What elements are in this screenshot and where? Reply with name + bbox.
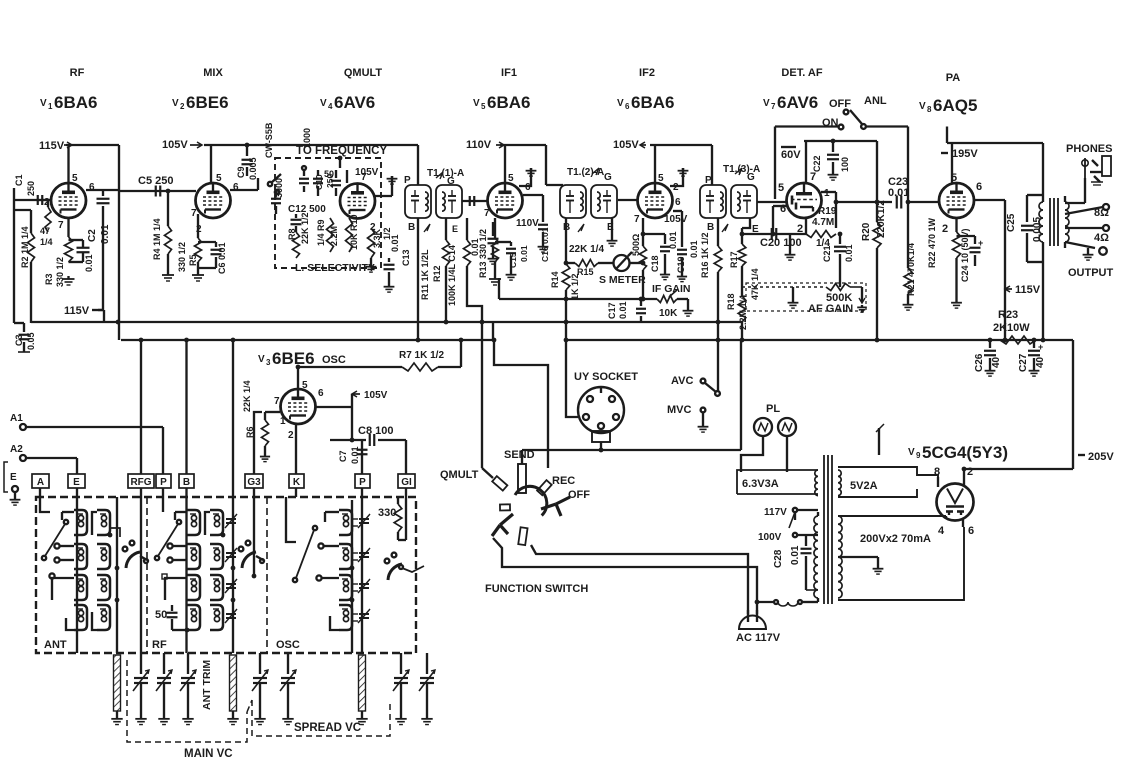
svg-text:AC 117V: AC 117V [736, 632, 781, 644]
svg-text:R16 1K 1/2: R16 1K 1/2 [700, 232, 710, 278]
variable capacitor C rf trim [280, 653, 296, 725]
ground C16 [538, 244, 549, 252]
capacitor 1000 [299, 128, 312, 192]
pin 5 V8 [951, 172, 957, 184]
capacitor C21 0.01 [822, 232, 854, 287]
svg-text:UY SOCKET: UY SOCKET [574, 371, 638, 383]
svg-text:6BE6: 6BE6 [272, 349, 315, 368]
meter S METER [598, 252, 646, 286]
pin P T1(1) [404, 175, 411, 186]
wire V8 plate top [947, 143, 1043, 184]
potentiometer IF GAIN 10K [499, 278, 688, 319]
svg-text:2: 2 [288, 430, 294, 441]
resistor R6 22K 1/4 [242, 380, 280, 454]
svg-text:5CG4(5Y3): 5CG4(5Y3) [922, 443, 1008, 462]
ground MVC [698, 424, 709, 432]
label ANT section [44, 639, 67, 651]
wire V3 cathode down [295, 425, 297, 474]
pin 2 V3 [288, 430, 294, 441]
svg-text:330 1/2: 330 1/2 [55, 257, 65, 287]
svg-text:6: 6 [625, 102, 630, 111]
svg-text:G: G [604, 172, 612, 183]
svg-text:115V: 115V [64, 305, 90, 317]
svg-text:6: 6 [675, 197, 681, 208]
svg-text:7: 7 [634, 214, 640, 225]
wire B+ bus right y340 [564, 338, 1073, 343]
svg-text:6: 6 [976, 181, 982, 193]
pin 7 V3 [274, 396, 280, 407]
svg-text:V: V [908, 447, 915, 458]
terminal box G3 [245, 474, 263, 488]
svg-text:GI: GI [401, 477, 412, 488]
rectifier winding 5V2A [838, 467, 938, 497]
tube V8 6AQ5 [939, 183, 974, 218]
svg-text:6BA6: 6BA6 [54, 93, 97, 112]
capacitor C26 40 [974, 340, 1002, 376]
wire V9 pin4 [945, 516, 947, 518]
svg-text:C20 100: C20 100 [760, 237, 802, 249]
terminal box P1 [156, 474, 171, 488]
dashed box coil assembly [36, 497, 416, 653]
tube V6 6BA6 [638, 183, 673, 218]
fuse [755, 600, 802, 606]
ground V1 cathode [63, 276, 75, 285]
capacitor C28 0.01 [773, 535, 818, 590]
pin 6 V2 [233, 182, 239, 193]
svg-text:0.01: 0.01 [470, 238, 480, 256]
pin 7 V6 [634, 214, 640, 225]
capacitor C12 500 [288, 204, 326, 232]
wire GI up [405, 440, 407, 474]
svg-text:R2 1M 1/4: R2 1M 1/4 [20, 226, 30, 268]
svg-text:C2: C2 [87, 229, 98, 242]
svg-text:6AV6: 6AV6 [334, 93, 375, 112]
wire G3 down inside [252, 488, 257, 578]
pin 2 V6 [673, 182, 679, 193]
svg-text:B: B [183, 477, 190, 488]
label 115V screen rail [64, 305, 103, 317]
pin 2 V9 [967, 466, 973, 478]
ground output [1083, 248, 1094, 260]
label MAIN VC [184, 748, 233, 760]
svg-text:MVC: MVC [667, 404, 692, 416]
svg-text:0.01: 0.01 [519, 245, 529, 262]
svg-text:6: 6 [89, 182, 95, 193]
IF transformer T1(3)-A [700, 185, 757, 218]
coil bank RF [187, 510, 237, 630]
pin P T1(3) [705, 175, 712, 186]
resistor R17 47K 1/4 [729, 228, 760, 300]
socket UY SOCKET [574, 371, 638, 442]
ground V7 cathode [785, 234, 796, 260]
svg-text:IF GAIN: IF GAIN [652, 283, 691, 295]
label SPREAD VC [294, 722, 361, 734]
svg-text:IF2: IF2 [639, 67, 655, 79]
ground C13 [384, 284, 395, 292]
resistor R5 330 1/2 [177, 238, 202, 272]
switch blade REC [537, 475, 575, 495]
tuning shaft RF [227, 655, 238, 725]
capacitor C25 0.005 [1006, 195, 1043, 262]
label 60V [781, 147, 801, 161]
svg-text:V: V [172, 98, 179, 109]
pin 7 V1 [58, 220, 64, 231]
tube name V5 6BA6 [473, 93, 530, 112]
label 195V [941, 127, 978, 161]
svg-text:R17: R17 [729, 251, 739, 268]
wire UY socket left [566, 340, 578, 417]
pin 5 V7 [778, 182, 784, 194]
wire V5 top right grounded [519, 168, 536, 186]
capacitor C7 0.01 label [338, 446, 360, 464]
svg-text:40: 40 [991, 356, 1002, 368]
svg-text:0.01: 0.01 [390, 234, 400, 252]
pin E T1(3) [752, 224, 759, 235]
ground E [10, 497, 21, 505]
svg-text:2: 2 [673, 182, 679, 193]
wire V6 top right grounded [670, 168, 688, 186]
resistor R12 100K 1/4L [447, 218, 482, 322]
wire V1 plate top [66, 145, 119, 183]
wire 115V feed corner [98, 310, 104, 322]
svg-text:IF1: IF1 [501, 67, 517, 79]
variable capacitor C ant trim [156, 653, 172, 725]
capacitor C23 0.01 [836, 176, 939, 209]
svg-text:2: 2 [180, 102, 185, 111]
terminal box E [68, 474, 85, 488]
pin 7 V5 [484, 208, 490, 219]
HV center tap [838, 557, 878, 566]
wire secondary taps [1065, 178, 1103, 248]
svg-text:47K 1/4: 47K 1/4 [750, 268, 760, 300]
ground R22 [951, 300, 962, 308]
wire ANL to V8 grid [866, 127, 908, 203]
terminal 8 ohm [1094, 204, 1109, 219]
terminal box K [289, 474, 304, 488]
switch arm SW fork [492, 514, 513, 536]
wire QMULT blade [440, 322, 493, 481]
wire V3 plate top [296, 365, 380, 389]
pin 6 V8 [976, 181, 982, 193]
resistor R11 1K 1/2L [420, 218, 450, 322]
capacitor C4 0.01 [69, 240, 95, 272]
svg-text:C6 0.01: C6 0.01 [217, 242, 227, 274]
svg-text:50: 50 [155, 609, 167, 621]
pin G T1(1) [436, 172, 455, 187]
pin G T1(2) [592, 168, 612, 183]
svg-text:A2: A2 [10, 444, 23, 455]
variable capacitor C main VC ant [133, 653, 149, 725]
wire ANT coils common [116, 497, 118, 653]
pin 2 V1 [44, 197, 50, 208]
svg-text:R5: R5 [188, 254, 198, 266]
svg-text:R7 1K 1/2: R7 1K 1/2 [399, 350, 444, 361]
capacitor C18 0.01 [643, 231, 678, 279]
svg-text:R18: R18 [726, 293, 736, 310]
wire RF shaft to bus [232, 340, 234, 497]
wire V5 cathode [494, 218, 496, 238]
pin G T1(3) [735, 168, 755, 183]
svg-text:RFG: RFG [130, 477, 151, 488]
svg-text:+: + [978, 238, 983, 248]
capacitor C27 40 [1018, 340, 1046, 376]
svg-text:L. SELECTIVITY: L. SELECTIVITY [295, 262, 375, 274]
pin 2 V8 [942, 223, 948, 235]
dashed box SPREAD VC [252, 700, 390, 736]
capacitor C13 0.01 [384, 234, 412, 284]
ground C14 [488, 256, 499, 264]
resistor 3.3K 1/2 [368, 227, 393, 264]
wire V1 cathode [67, 218, 69, 237]
svg-text:FUNCTION SWITCH: FUNCTION SWITCH [485, 583, 588, 595]
capacitor C2 0.01 [87, 190, 111, 310]
pin 7 V4 [361, 172, 367, 183]
svg-text:7: 7 [274, 396, 280, 407]
wire ON to V7 [775, 127, 839, 200]
svg-text:R23: R23 [998, 309, 1018, 321]
pin B T1(3) [707, 222, 728, 233]
label 500K AF GAIN [808, 292, 853, 315]
ground QMULT cathode [366, 264, 377, 272]
svg-text:200Vx2 70mA: 200Vx2 70mA [860, 533, 931, 545]
terminal box A [32, 474, 49, 488]
pin 6 V9 [968, 525, 974, 537]
svg-text:+: + [1038, 342, 1043, 352]
svg-text:1: 1 [280, 416, 286, 427]
resistor R3 330 1/2 [44, 237, 73, 287]
svg-text:0.01: 0.01 [689, 240, 699, 258]
switch arm OFF fork [541, 489, 590, 516]
wire G3 up [254, 412, 262, 474]
svg-text:4: 4 [938, 525, 945, 537]
resistor R12 [432, 265, 442, 282]
label L. SELECTIVITY [295, 262, 375, 274]
svg-text:C21: C21 [822, 245, 832, 262]
capacitor 50 RF [155, 605, 189, 632]
potentiometer AF GAIN 500K [742, 284, 865, 304]
resistor R13 330 1/2 [478, 229, 499, 278]
svg-text:60V: 60V [781, 149, 801, 161]
svg-text:R20: R20 [861, 222, 872, 241]
wire REC blade [492, 338, 548, 468]
pin 1 V7 [824, 188, 830, 199]
svg-text:OFF: OFF [568, 489, 590, 501]
svg-text:5: 5 [778, 182, 784, 194]
svg-text:6: 6 [780, 203, 786, 215]
capacitor C22 100 [812, 139, 850, 181]
svg-text:6.3V3A: 6.3V3A [742, 478, 779, 490]
resistor R20 220K 1/2 [861, 141, 887, 340]
capacitor C19 0.01 [673, 211, 699, 282]
plug AC117V [736, 610, 781, 644]
pin 6 V6 [675, 197, 681, 208]
label 110V screen V5 [516, 218, 539, 229]
label OUTPUT [1068, 267, 1114, 279]
label 205V [1078, 451, 1114, 463]
variable capacitor C osc trim [419, 653, 435, 725]
pin 5 V2 [216, 173, 222, 184]
svg-text:105V: 105V [364, 390, 388, 401]
svg-text:ANL: ANL [864, 95, 887, 107]
wire T1(3) secondary to V7 [757, 201, 787, 203]
svg-text:C25: C25 [1006, 213, 1017, 232]
capacitor C20 100 [742, 228, 806, 249]
svg-text:6: 6 [233, 182, 239, 193]
dashed box AF GAIN [746, 283, 866, 311]
switch MVC [667, 404, 705, 424]
terminal box P2 [355, 474, 370, 488]
svg-text:R22 470 1W: R22 470 1W [927, 217, 937, 268]
svg-text:110V: 110V [516, 218, 539, 229]
switch blade south [518, 527, 527, 545]
dashed divider ANT/RF [146, 497, 148, 653]
switch AVC [671, 340, 720, 396]
pin 8 V9 [934, 466, 940, 478]
resistor R22 470 1W [927, 217, 961, 300]
wire GI down inside [398, 488, 406, 540]
variable capacitor C ant trim 2 [180, 653, 196, 725]
svg-text:1/4 R9: 1/4 R9 [316, 219, 326, 246]
resistor R7 1K 1/2 [380, 340, 461, 371]
capacitor C1 250 [14, 174, 42, 205]
svg-text:V: V [617, 98, 624, 109]
pin 6 V3 [318, 388, 324, 399]
svg-text:110V: 110V [466, 139, 492, 151]
svg-text:2: 2 [942, 223, 948, 235]
pin 1 V3 [280, 416, 286, 427]
svg-text:V: V [320, 98, 327, 109]
resistor R18 2.2M 1/4 [726, 293, 748, 340]
wire V7 pin6 avc [771, 206, 787, 236]
label FUNCTION SWITCH [485, 583, 588, 595]
svg-text:C17: C17 [607, 302, 617, 319]
tube name V9 5CG4 [908, 443, 1008, 462]
wire V7 pin1 right [821, 192, 838, 228]
svg-text:8Ω: 8Ω [1094, 207, 1109, 219]
wire V9 pin8 [937, 477, 939, 487]
wire V7 plate top [804, 141, 877, 183]
svg-text:V: V [473, 98, 480, 109]
wire B+ bus left y340 [121, 322, 493, 342]
svg-text:DET. AF: DET. AF [781, 67, 822, 79]
svg-text:250: 250 [26, 181, 36, 196]
svg-text:C28: C28 [773, 549, 784, 568]
svg-text:10K: 10K [659, 308, 678, 319]
wire V2 plate to T1(1) [417, 145, 419, 185]
switch contact west [500, 504, 510, 510]
svg-text:22K 1/4: 22K 1/4 [242, 380, 252, 412]
capacitor C17 0.01 [607, 299, 646, 322]
dashed box selectivity [275, 158, 381, 268]
svg-text:SPREAD VC: SPREAD VC [294, 722, 361, 734]
pin 5 V3 [302, 380, 308, 391]
svg-text:E: E [10, 472, 17, 483]
svg-text:A1: A1 [10, 413, 23, 424]
tube V5 6BA6 [488, 183, 523, 218]
wire PL to heater winding [741, 436, 787, 472]
wire V4 plate top [338, 156, 343, 168]
tube V2 6BE6 [196, 183, 231, 218]
svg-text:C13: C13 [401, 249, 411, 266]
label MIX stage [203, 67, 223, 79]
svg-text:PHONES: PHONES [1066, 143, 1112, 155]
label 115V plate supply V1 [39, 140, 72, 152]
svg-text:1/4: 1/4 [40, 237, 53, 247]
svg-text:QMULT: QMULT [440, 469, 479, 481]
IF transformer T1(2)-A [560, 185, 617, 218]
svg-text:0.01: 0.01 [790, 545, 801, 565]
wires ANT coil taps [49, 512, 119, 630]
svg-text:C7: C7 [338, 450, 348, 462]
wire P2 up [357, 440, 368, 474]
wire function switch to transformer 2 [493, 538, 757, 614]
tube V9 5CG4 [937, 484, 974, 521]
svg-text:C9: C9 [236, 166, 246, 178]
svg-text:5V2A: 5V2A [850, 480, 878, 492]
output transformer core [1050, 198, 1058, 246]
capacitor C6 0.01 [198, 242, 227, 274]
tube name V1 6BA6 [40, 93, 97, 112]
tuning shaft ANT [111, 655, 122, 725]
terminal 0 [1099, 247, 1107, 255]
dashed divider RF/OSC [266, 497, 268, 653]
resistor R1 47 1/4 [40, 200, 53, 247]
svg-text:R4 1M 1/4: R4 1M 1/4 [152, 218, 162, 260]
svg-text:205V: 205V [1088, 451, 1114, 463]
svg-text:9: 9 [916, 451, 921, 460]
svg-text:T1.(1)-A: T1.(1)-A [427, 168, 464, 179]
svg-text:8: 8 [934, 466, 940, 478]
wire V2 plate top [204, 145, 418, 183]
svg-text:SEND: SEND [504, 449, 535, 461]
pin B T1(1) [408, 222, 430, 233]
svg-text:B: B [707, 222, 714, 233]
tuning shaft OSC [356, 655, 367, 725]
svg-text:7: 7 [191, 208, 197, 219]
svg-text:22K 1/2: 22K 1/2 [300, 212, 310, 244]
wire V1 grid left [36, 199, 51, 201]
wire T1(1) B down [417, 218, 419, 339]
svg-text:115V: 115V [1015, 284, 1041, 296]
svg-text:CW-S5B: CW-S5B [264, 122, 274, 158]
tube name V4 6AV6 [320, 93, 375, 112]
svg-text:P: P [160, 477, 167, 488]
svg-text:C16 0.01: C16 0.01 [540, 227, 550, 262]
ground R6 [260, 454, 270, 462]
label RF section [152, 639, 167, 651]
wire OSC coils common [351, 500, 353, 653]
svg-text:105V: 105V [355, 167, 379, 178]
wire UY socket bottom run [522, 340, 741, 452]
svg-text:MIX: MIX [203, 67, 223, 79]
pin 6 V1 [89, 182, 95, 193]
svg-text:C27: C27 [1018, 353, 1029, 372]
svg-text:6: 6 [318, 388, 324, 399]
label PA stage [946, 72, 961, 84]
ground R21 [903, 302, 914, 310]
resistor R19 4.7M 1/4 [806, 206, 837, 249]
wire V5 plate to T1(2) [546, 145, 563, 185]
svg-text:PA: PA [946, 72, 961, 84]
output transformer secondary [1065, 196, 1069, 248]
resistor R14 1K 1/2 [550, 218, 580, 340]
wire V4 right ground [375, 186, 392, 196]
label DET.AF stage [781, 67, 822, 79]
wire RFG down inside [140, 488, 142, 653]
svg-text:1: 1 [824, 188, 830, 199]
switch CW-S5B [264, 122, 281, 194]
svg-text:V: V [258, 354, 265, 365]
